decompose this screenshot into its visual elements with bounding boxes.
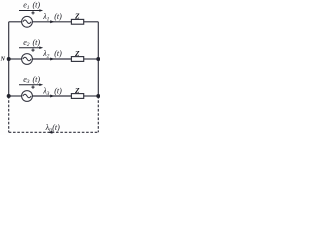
wire row3 right [84,95,99,97]
current arrow lambda2 head [50,58,54,61]
wire neutral return dashed bottom [9,131,99,133]
junction dot left row3 [7,94,11,98]
svg-text:Z: Z [74,12,80,21]
voltage arrow e3 line [19,84,40,86]
wire row2 right [84,58,99,60]
wire left bus (neutral) [8,22,10,96]
voltage arrow e2 head [39,46,43,49]
impedance Z3 box [71,94,83,99]
wire row3 left [9,95,22,97]
wire row2 mid [32,58,71,60]
svg-text:e1 (t): e1 (t) [23,1,40,11]
current arrow lambda3 head [50,95,54,98]
wire neutral return dashed left [8,96,10,132]
wire row1 left [9,21,22,23]
wire neutral return dashed right [97,96,99,132]
svg-text:λn(t): λn(t) [45,123,61,133]
source e2 sine [23,57,31,61]
svg-text:N: N [0,57,6,63]
neutral current arrow head (left) [48,131,53,134]
impedance Z2 box [71,57,83,62]
svg-text:Z: Z [74,86,80,95]
voltage arrow e1 head [39,9,43,12]
svg-text:e2 (t): e2 (t) [23,38,40,48]
source e2 circle [22,54,33,65]
wire row1 mid [32,21,71,23]
source e3 circle [22,91,33,102]
plus sign row3 [31,86,34,89]
impedance Z1 box [71,19,83,24]
svg-text:λ2 (t): λ2 (t) [42,49,62,59]
plus sign row1 [31,11,34,14]
wire row2 left [9,58,22,60]
wire right bus [97,22,99,96]
wire row1 right [84,21,99,23]
node N junction dot [7,57,11,61]
svg-text:λ3 (t): λ3 (t) [42,86,62,96]
junction dot right row3 [96,94,100,98]
wire row3 mid [32,95,71,97]
voltage arrow e3 head [39,83,43,86]
junction dot right row2 [96,57,100,61]
source e1 circle [22,16,33,27]
svg-text:λ1 (t): λ1 (t) [42,12,62,22]
svg-text:e3 (t): e3 (t) [23,75,40,85]
plus sign row2 [31,49,34,52]
voltage arrow e2 line [19,47,40,49]
source e3 sine [23,94,31,98]
source e1 sine [23,20,31,24]
svg-text:Z: Z [74,49,80,58]
current arrow lambda1 head [50,20,54,23]
voltage arrow e1 line [19,10,40,12]
